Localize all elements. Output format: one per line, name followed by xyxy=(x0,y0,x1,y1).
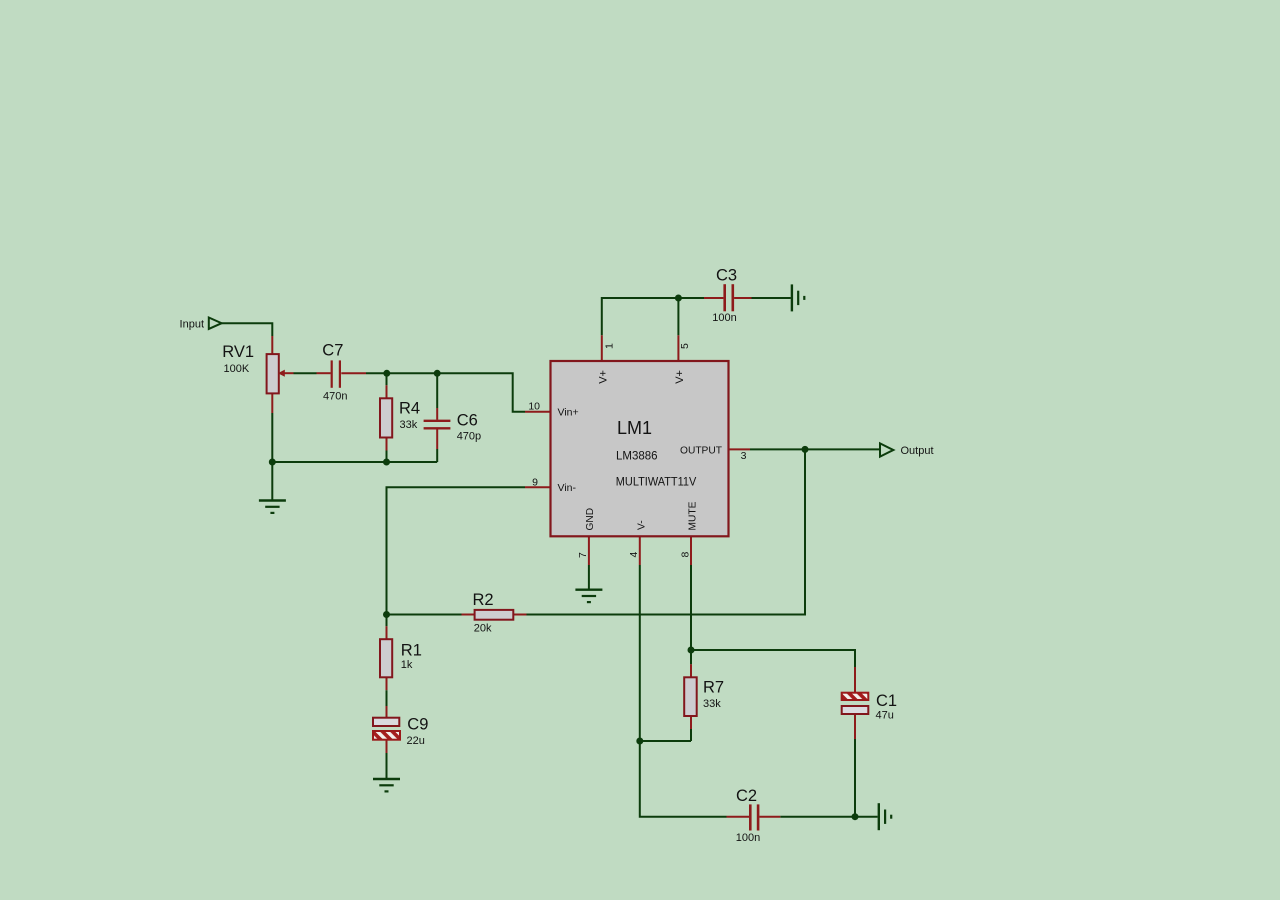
svg-text:MULTIWATT11V: MULTIWATT11V xyxy=(616,477,697,489)
svg-text:10: 10 xyxy=(528,400,540,412)
svg-text:V+: V+ xyxy=(597,370,609,384)
svg-text:Input: Input xyxy=(180,319,204,331)
svg-text:1: 1 xyxy=(604,343,616,349)
svg-text:Vin+: Vin+ xyxy=(558,407,579,419)
svg-text:470p: 470p xyxy=(457,431,481,443)
svg-text:C1: C1 xyxy=(876,692,897,710)
svg-text:RV1: RV1 xyxy=(222,343,254,361)
svg-text:1k: 1k xyxy=(401,659,413,671)
svg-text:33k: 33k xyxy=(400,419,418,431)
svg-text:5: 5 xyxy=(679,343,691,349)
svg-text:R4: R4 xyxy=(399,400,420,418)
svg-text:C2: C2 xyxy=(736,787,757,805)
svg-text:C7: C7 xyxy=(322,342,343,360)
svg-text:100n: 100n xyxy=(736,832,760,844)
svg-text:GND: GND xyxy=(585,508,596,531)
svg-text:V-: V- xyxy=(637,520,648,530)
svg-text:C9: C9 xyxy=(407,716,428,734)
svg-text:OUTPUT: OUTPUT xyxy=(680,445,723,457)
svg-text:9: 9 xyxy=(532,476,538,488)
svg-text:Vin-: Vin- xyxy=(558,482,577,494)
svg-text:33k: 33k xyxy=(703,698,721,710)
svg-text:20k: 20k xyxy=(474,622,492,634)
svg-text:LM1: LM1 xyxy=(617,418,652,438)
svg-text:C6: C6 xyxy=(457,412,478,430)
svg-text:100n: 100n xyxy=(712,312,736,324)
svg-text:3: 3 xyxy=(741,450,747,462)
svg-text:100K: 100K xyxy=(224,363,250,375)
svg-text:R1: R1 xyxy=(401,642,422,660)
svg-text:470n: 470n xyxy=(323,391,347,403)
svg-text:R7: R7 xyxy=(703,679,724,697)
svg-text:Output: Output xyxy=(901,445,934,457)
svg-text:LM3886: LM3886 xyxy=(616,451,658,463)
svg-text:22u: 22u xyxy=(407,735,425,747)
svg-text:MUTE: MUTE xyxy=(688,501,699,530)
svg-text:R2: R2 xyxy=(473,591,494,609)
svg-text:C3: C3 xyxy=(716,267,737,285)
svg-text:V+: V+ xyxy=(674,370,686,384)
svg-text:7: 7 xyxy=(577,552,589,558)
svg-text:47u: 47u xyxy=(876,710,894,722)
svg-text:4: 4 xyxy=(628,552,640,558)
svg-text:8: 8 xyxy=(680,552,692,558)
